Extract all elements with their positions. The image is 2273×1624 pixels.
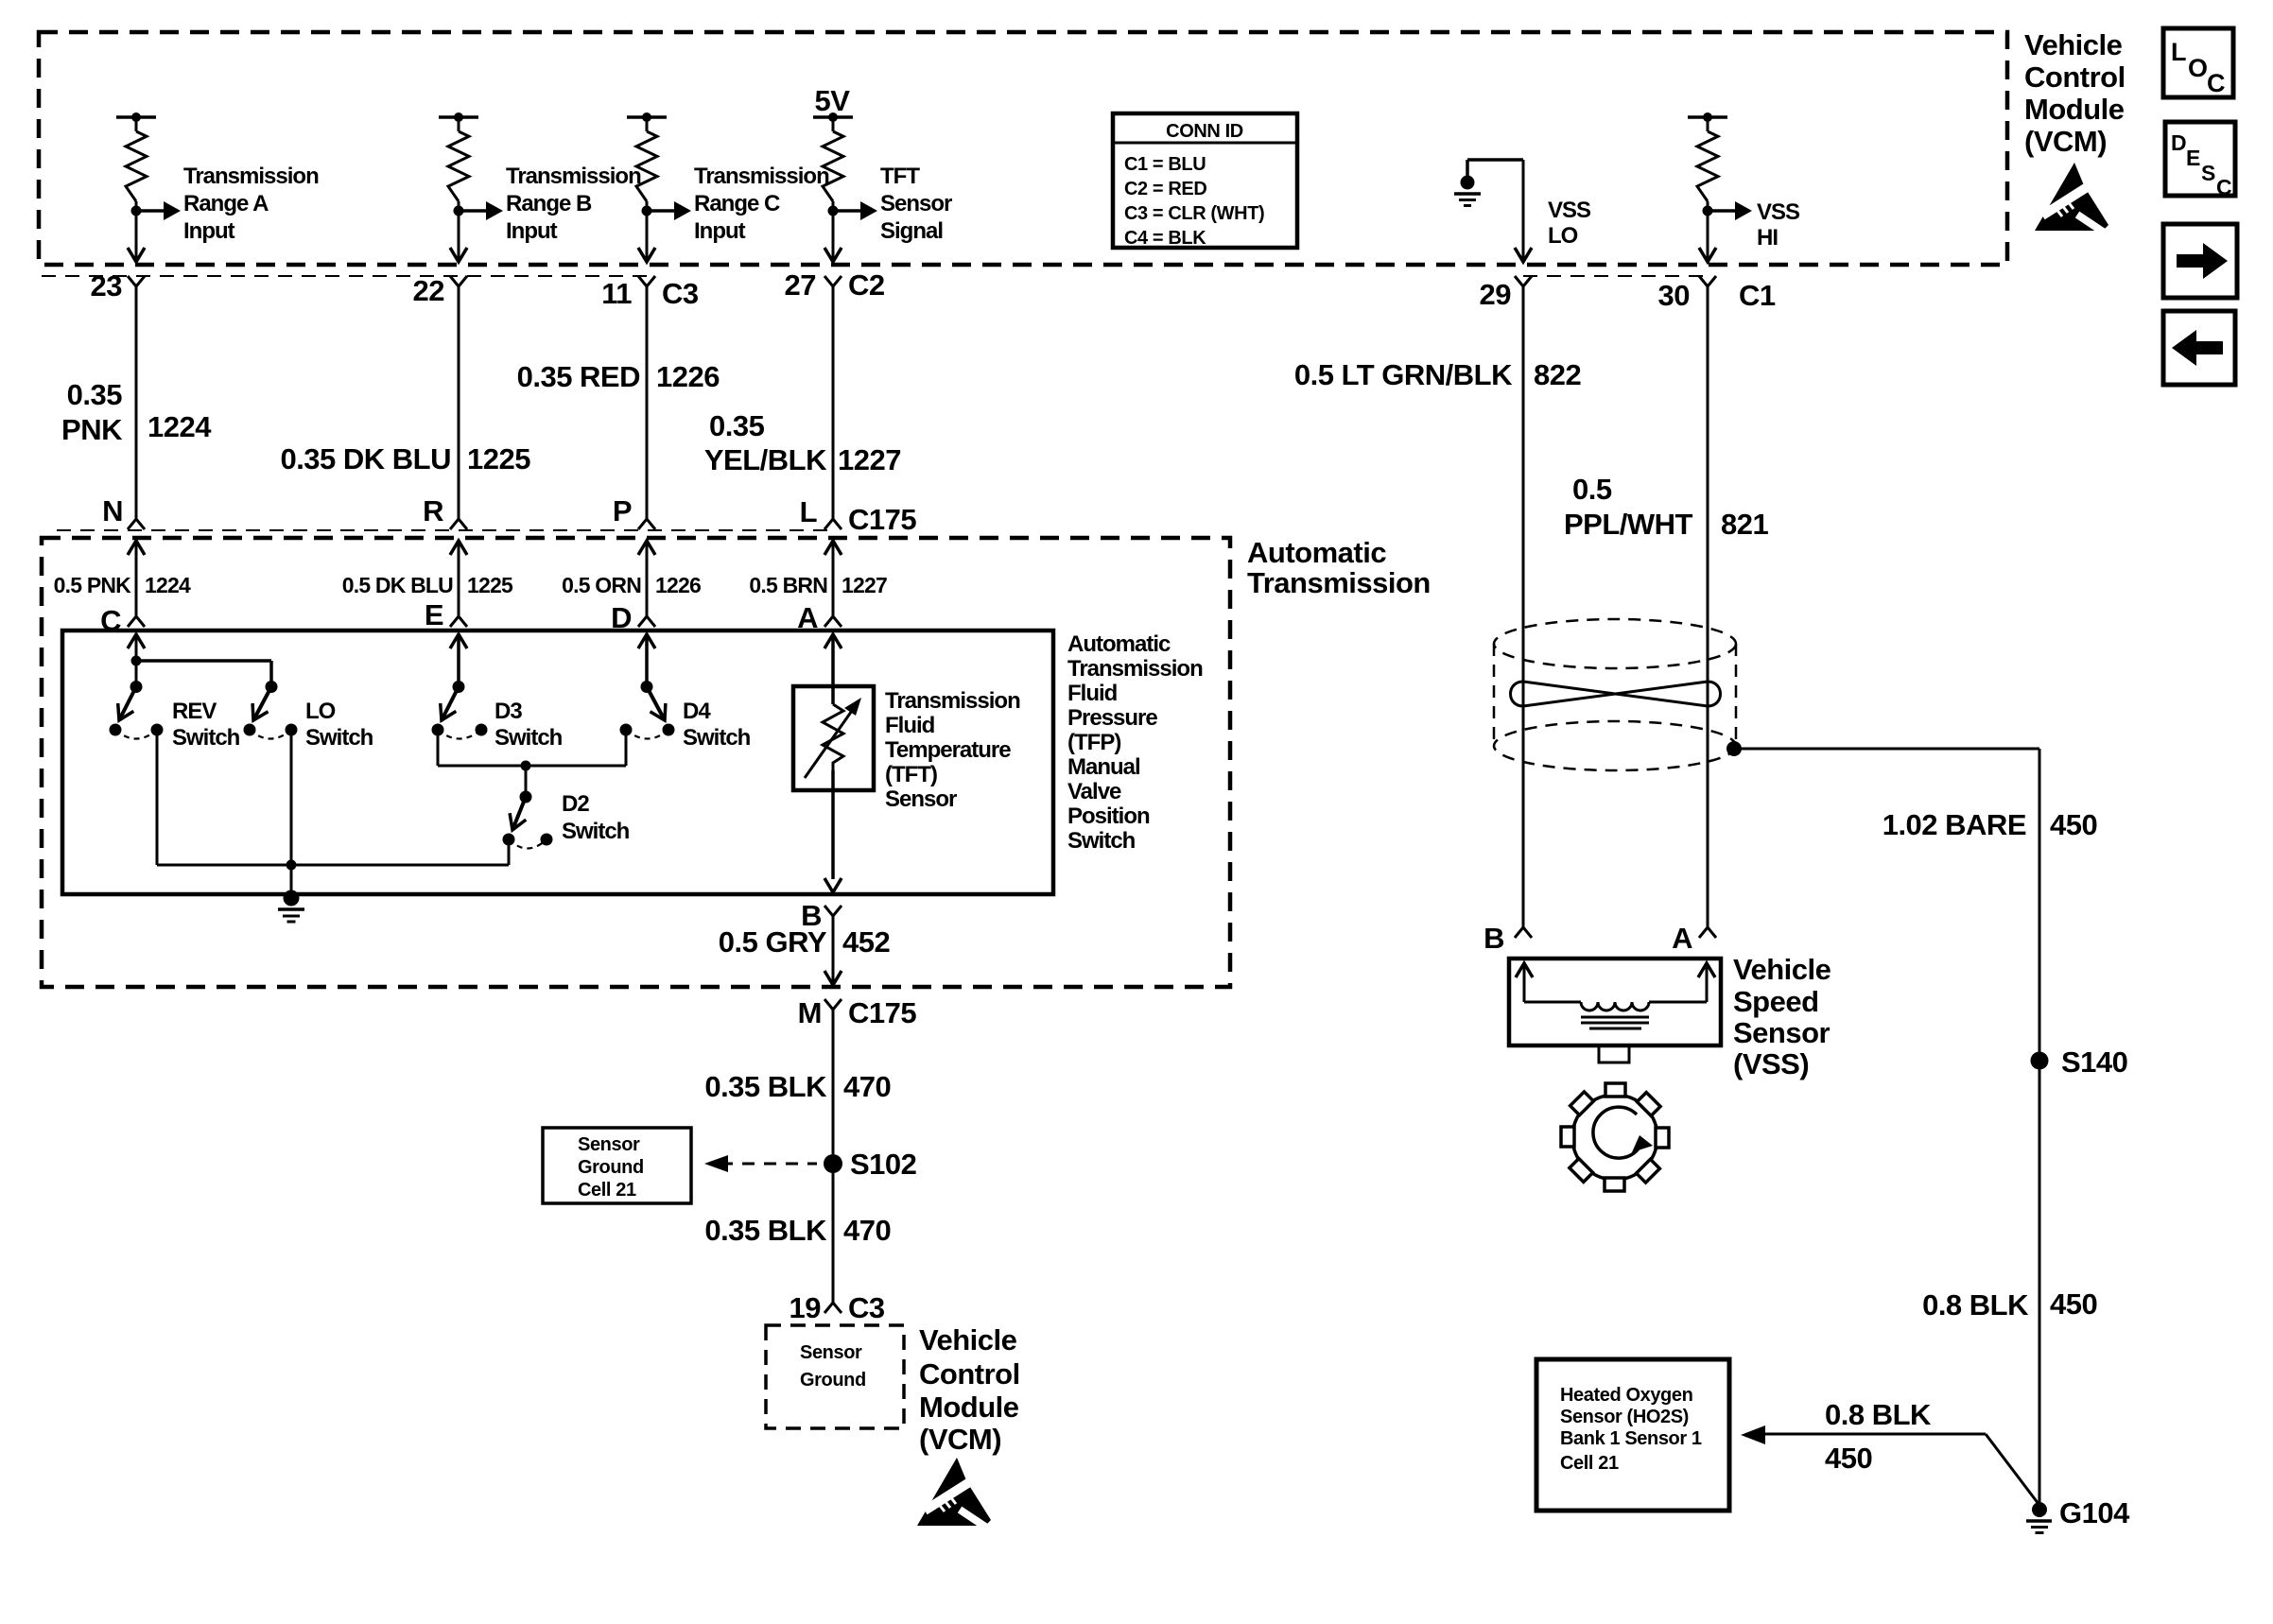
wire circuit 1224 harness segment bbox=[135, 286, 138, 519]
svg-text:Module: Module bbox=[919, 1391, 1019, 1424]
svg-text:450: 450 bbox=[2050, 1287, 2097, 1321]
svg-text:0.8 BLK: 0.8 BLK bbox=[1825, 1398, 1932, 1431]
wire circuit 470 lower bbox=[832, 1173, 835, 1303]
splice S102 bbox=[824, 1154, 842, 1173]
svg-text:Input: Input bbox=[506, 218, 558, 244]
svg-text:Sensor: Sensor bbox=[885, 786, 957, 812]
svg-text:VSS: VSS bbox=[1757, 199, 1800, 225]
svg-text:0.35 BLK: 0.35 BLK bbox=[704, 1070, 827, 1103]
VCM internal ground for VSS LO bbox=[1467, 158, 1523, 162]
connector dashed line C3 section bbox=[42, 275, 647, 277]
svg-text:0.5 GRY: 0.5 GRY bbox=[719, 925, 827, 959]
wire circuit 1226 harness segment bbox=[646, 286, 649, 519]
svg-text:Switch: Switch bbox=[1067, 828, 1136, 854]
svg-text:(TFT): (TFT) bbox=[885, 762, 937, 787]
wire circuit 822 harness segment bbox=[1522, 286, 1525, 927]
D4 switch bbox=[647, 687, 665, 721]
svg-text:Fluid: Fluid bbox=[885, 713, 935, 738]
Sensor Ground Cell 21 reference box bbox=[543, 1128, 691, 1203]
svg-text:(VCM): (VCM) bbox=[2024, 125, 2107, 158]
svg-text:1.02 BARE: 1.02 BARE bbox=[1883, 808, 2026, 841]
svg-text:1224: 1224 bbox=[145, 573, 191, 597]
svg-text:Vehicle: Vehicle bbox=[2024, 28, 2123, 61]
svg-text:REV: REV bbox=[172, 699, 217, 724]
svg-text:1226: 1226 bbox=[655, 573, 701, 597]
wire circuit 1225 inside transmission bbox=[450, 541, 467, 555]
svg-text:Control: Control bbox=[919, 1357, 1020, 1391]
twisted pair shield sides bbox=[1493, 644, 1496, 746]
Heated Oxygen Sensor reference box bbox=[1536, 1359, 1729, 1511]
connector C175 cavity N bbox=[128, 519, 145, 529]
svg-text:C2 = RED: C2 = RED bbox=[1124, 179, 1206, 199]
svg-text:Switch: Switch bbox=[305, 725, 373, 751]
svg-text:C3: C3 bbox=[848, 1291, 885, 1324]
wire LO contact to case ground bbox=[290, 730, 293, 894]
svg-text:(TFP): (TFP) bbox=[1067, 730, 1120, 755]
D2 switch bbox=[512, 797, 526, 830]
svg-text:0.5 BRN: 0.5 BRN bbox=[749, 573, 827, 597]
reluctor wheel (VSS trigger) bbox=[1572, 1095, 1657, 1180]
TFT sensor box bbox=[793, 686, 874, 790]
svg-text:Signal: Signal bbox=[880, 218, 943, 244]
svg-text:S140: S140 bbox=[2061, 1045, 2127, 1079]
svg-text:N: N bbox=[102, 494, 123, 527]
wire circuit 1226 inside transmission bbox=[638, 541, 655, 555]
svg-text:Transmission: Transmission bbox=[506, 164, 641, 189]
svg-text:D4: D4 bbox=[683, 699, 711, 724]
svg-text:0.5: 0.5 bbox=[1572, 473, 1612, 506]
svg-text:470: 470 bbox=[843, 1070, 891, 1103]
twisted pair shield ellipse bottom bbox=[1494, 721, 1736, 770]
svg-text:Transmission: Transmission bbox=[183, 164, 319, 189]
svg-text:0.8 BLK: 0.8 BLK bbox=[1922, 1288, 2029, 1322]
svg-text:C1 = BLU: C1 = BLU bbox=[1124, 154, 1206, 175]
Vehicle Control Module (VCM) dashed enclosure bbox=[39, 32, 2007, 265]
svg-text:C175: C175 bbox=[848, 996, 916, 1029]
svg-text:LO: LO bbox=[1548, 223, 1578, 249]
svg-text:LO: LO bbox=[305, 699, 336, 724]
svg-text:D3: D3 bbox=[495, 699, 522, 724]
svg-text:PNK: PNK bbox=[61, 413, 123, 446]
ESD sensitivity symbol (bottom VCM) bbox=[917, 1458, 994, 1532]
resistor pull-up, VSS HI input (VCM) bbox=[1688, 115, 1727, 119]
REV switch bbox=[119, 687, 136, 721]
svg-text:Fluid: Fluid bbox=[1067, 681, 1118, 706]
svg-text:R: R bbox=[423, 494, 443, 527]
svg-text:Valve: Valve bbox=[1067, 779, 1121, 804]
Sensor Ground dashed box (VCM) bbox=[766, 1325, 904, 1428]
svg-text:Cell 21: Cell 21 bbox=[578, 1180, 636, 1201]
svg-text:Range A: Range A bbox=[183, 191, 269, 216]
svg-text:B: B bbox=[1484, 922, 1504, 955]
svg-text:Bank 1 Sensor 1: Bank 1 Sensor 1 bbox=[1560, 1428, 1702, 1449]
svg-text:Transmission: Transmission bbox=[1247, 566, 1431, 599]
svg-text:L: L bbox=[2171, 38, 2187, 66]
svg-text:Range C: Range C bbox=[694, 191, 780, 216]
svg-text:Heated Oxygen: Heated Oxygen bbox=[1560, 1385, 1692, 1406]
svg-text:YEL/BLK: YEL/BLK bbox=[704, 443, 827, 476]
svg-text:22: 22 bbox=[413, 274, 444, 307]
svg-text:Pressure: Pressure bbox=[1067, 705, 1157, 731]
svg-text:30: 30 bbox=[1658, 279, 1690, 312]
svg-text:0.35 BLK: 0.35 BLK bbox=[704, 1214, 827, 1247]
wire REV contact to ground bus bbox=[156, 730, 159, 865]
svg-text:19: 19 bbox=[789, 1291, 822, 1324]
svg-text:G104: G104 bbox=[2059, 1496, 2130, 1529]
svg-text:VSS: VSS bbox=[1548, 198, 1591, 223]
connector C175 cavity R bbox=[450, 519, 467, 529]
svg-text:Automatic: Automatic bbox=[1067, 631, 1171, 657]
back arrow legend icon bbox=[2163, 311, 2235, 385]
svg-text:L: L bbox=[800, 495, 817, 528]
ESD sensitivity symbol (top, VCM) bbox=[2035, 163, 2111, 237]
LO switch bbox=[253, 687, 271, 721]
connector C175 cavity M bbox=[824, 999, 842, 1010]
svg-text:450: 450 bbox=[1825, 1442, 1872, 1475]
svg-text:Speed: Speed bbox=[1733, 985, 1819, 1018]
wire HO2S ground 0.8 BLK 450 bbox=[1741, 1425, 1765, 1444]
wire circuit 821 harness segment bbox=[1707, 286, 1709, 927]
wire D2 contact to ground bus bbox=[508, 839, 511, 865]
twist symbol bbox=[1511, 682, 1721, 706]
svg-text:A: A bbox=[1672, 922, 1692, 955]
D3 switch bbox=[442, 687, 459, 721]
svg-text:S: S bbox=[2201, 161, 2215, 185]
svg-text:(VSS): (VSS) bbox=[1733, 1047, 1809, 1080]
connector pin 11 bbox=[638, 276, 655, 286]
svg-text:Sensor: Sensor bbox=[1733, 1016, 1831, 1049]
wire C node to LO switch common bbox=[136, 659, 271, 663]
svg-text:O: O bbox=[2188, 54, 2208, 82]
svg-text:450: 450 bbox=[2050, 808, 2097, 841]
svg-text:Sensor: Sensor bbox=[800, 1342, 862, 1363]
Vehicle Speed Sensor box bbox=[1509, 959, 1721, 1045]
svg-text:Vehicle: Vehicle bbox=[1733, 953, 1831, 986]
svg-text:HI: HI bbox=[1757, 225, 1778, 251]
VSS mounting stub bbox=[1599, 1045, 1629, 1063]
svg-text:1225: 1225 bbox=[467, 573, 513, 597]
svg-text:Vehicle: Vehicle bbox=[919, 1323, 1017, 1356]
wire drain 1.02 BARE 450 bbox=[1734, 748, 2039, 751]
svg-text:1227: 1227 bbox=[842, 573, 887, 597]
svg-text:0.35 DK BLU: 0.35 DK BLU bbox=[280, 442, 451, 475]
svg-text:0.5 DK BLU: 0.5 DK BLU bbox=[342, 573, 453, 597]
svg-text:TFT: TFT bbox=[880, 164, 920, 189]
svg-text:C175: C175 bbox=[848, 503, 916, 536]
svg-text:1225: 1225 bbox=[467, 442, 530, 475]
svg-text:470: 470 bbox=[843, 1214, 891, 1247]
svg-text:CONN ID: CONN ID bbox=[1166, 121, 1243, 142]
TFP manual valve position switch box bbox=[62, 631, 1053, 894]
svg-text:1227: 1227 bbox=[838, 443, 901, 476]
twisted pair shield ellipse top bbox=[1494, 619, 1736, 668]
svg-text:Range B: Range B bbox=[506, 191, 592, 216]
svg-text:Transmission: Transmission bbox=[1067, 656, 1203, 682]
svg-text:29: 29 bbox=[1480, 278, 1512, 311]
VSS pickup coil bbox=[1516, 963, 1533, 977]
resistor pull-up, Transmission Range C input (VCM) bbox=[627, 115, 667, 119]
connector dashed line C1 section bbox=[1523, 275, 1708, 277]
drain wire junction bbox=[1726, 741, 1742, 756]
svg-text:11: 11 bbox=[601, 277, 632, 310]
wire circuit 1227 harness segment bbox=[832, 286, 835, 519]
svg-text:C3 = CLR (WHT): C3 = CLR (WHT) bbox=[1124, 203, 1264, 224]
connector pin 27 bbox=[824, 276, 842, 286]
wire terminal C to REV switch bbox=[128, 634, 145, 648]
connector C175 cavity L bbox=[824, 519, 842, 529]
connector cavity A (VSS) bbox=[1699, 927, 1716, 938]
svg-text:0.5 LT GRN/BLK: 0.5 LT GRN/BLK bbox=[1294, 358, 1513, 391]
svg-text:0.35: 0.35 bbox=[709, 409, 765, 442]
wire TFT sensor to terminal B bbox=[831, 770, 835, 790]
svg-text:Module: Module bbox=[2024, 93, 2125, 126]
connector C175 cavity P bbox=[638, 519, 655, 529]
svg-text:Transmission: Transmission bbox=[885, 688, 1020, 714]
svg-text:Switch: Switch bbox=[495, 725, 563, 751]
ground G104 bbox=[2032, 1502, 2047, 1517]
svg-text:0.35: 0.35 bbox=[67, 378, 123, 411]
svg-text:0.5 PNK: 0.5 PNK bbox=[54, 573, 132, 597]
wire circuit 1227 inside transmission bbox=[824, 541, 842, 555]
wire circuit 1224 inside transmission bbox=[128, 541, 145, 555]
Automatic Transmission dashed enclosure bbox=[42, 538, 1230, 987]
svg-text:23: 23 bbox=[91, 269, 123, 302]
svg-text:Control: Control bbox=[2024, 60, 2126, 94]
svg-text:821: 821 bbox=[1721, 508, 1768, 541]
connector pin 23 bbox=[128, 276, 145, 286]
wire terminal D to D4 switch bbox=[638, 634, 655, 648]
svg-text:C: C bbox=[2207, 69, 2226, 97]
svg-text:Input: Input bbox=[694, 218, 746, 244]
svg-text:0.5 ORN: 0.5 ORN bbox=[562, 573, 641, 597]
wire junction to D2 common bbox=[525, 766, 528, 797]
svg-text:E: E bbox=[2186, 146, 2200, 170]
svg-text:Automatic: Automatic bbox=[1247, 536, 1386, 569]
svg-text:S102: S102 bbox=[850, 1148, 916, 1181]
TFT thermistor element bbox=[823, 704, 843, 770]
svg-text:Switch: Switch bbox=[683, 725, 751, 751]
LOC legend icon bbox=[2163, 28, 2233, 97]
connector pin 22 bbox=[450, 276, 467, 286]
svg-text:1226: 1226 bbox=[656, 360, 720, 393]
svg-text:822: 822 bbox=[1534, 358, 1581, 391]
connector C175 dashed line bbox=[57, 529, 833, 531]
svg-text:C3: C3 bbox=[662, 277, 699, 310]
dashed reference arrow to Sensor Ground cell bbox=[720, 1163, 817, 1166]
svg-text:Cell 21: Cell 21 bbox=[1560, 1453, 1619, 1474]
svg-text:P: P bbox=[613, 494, 632, 527]
connector pin 29 bbox=[1515, 276, 1532, 286]
svg-text:C: C bbox=[2216, 175, 2232, 199]
wire circuit 1225 harness segment bbox=[458, 286, 460, 519]
connector pin 19 C3 bbox=[824, 1303, 842, 1313]
svg-text:Manual: Manual bbox=[1067, 754, 1140, 780]
svg-text:(VCM): (VCM) bbox=[919, 1423, 1001, 1456]
case ground symbol (TFP) bbox=[284, 890, 300, 907]
svg-text:C1: C1 bbox=[1739, 279, 1776, 312]
svg-text:5V: 5V bbox=[815, 84, 851, 117]
wire VSS LO inside VCM bbox=[1522, 160, 1525, 261]
connector cavity B (VSS) bbox=[1515, 927, 1532, 938]
connector pin 30 bbox=[1699, 276, 1716, 286]
wire terminal A to TFT sensor bbox=[824, 634, 842, 648]
svg-text:Position: Position bbox=[1067, 803, 1150, 829]
svg-text:D2: D2 bbox=[562, 791, 589, 817]
svg-text:Sensor: Sensor bbox=[578, 1134, 640, 1155]
svg-text:1224: 1224 bbox=[147, 410, 212, 443]
resistor pull-up, Transmission Range A input (VCM) bbox=[116, 115, 156, 119]
svg-text:27: 27 bbox=[785, 268, 816, 302]
svg-text:D: D bbox=[2171, 130, 2187, 155]
forward arrow legend icon bbox=[2163, 224, 2237, 298]
wire D3/D4 contacts junction bbox=[437, 730, 440, 766]
svg-text:Ground: Ground bbox=[578, 1157, 644, 1178]
wire circuit 470 upper bbox=[832, 1010, 835, 1154]
svg-text:C2: C2 bbox=[848, 268, 885, 302]
svg-text:452: 452 bbox=[842, 925, 890, 959]
splice S140 bbox=[2031, 1052, 2049, 1070]
resistor pull-up, Transmission Range B input (VCM) bbox=[439, 115, 478, 119]
svg-text:M: M bbox=[798, 996, 822, 1029]
svg-text:Switch: Switch bbox=[562, 819, 630, 844]
wire terminal E to D3 switch bbox=[450, 634, 467, 648]
svg-text:Input: Input bbox=[183, 218, 235, 244]
svg-text:PPL/WHT: PPL/WHT bbox=[1564, 508, 1693, 541]
svg-text:C4 = BLK: C4 = BLK bbox=[1124, 228, 1206, 249]
svg-text:E: E bbox=[425, 598, 443, 631]
svg-text:Sensor: Sensor bbox=[880, 191, 952, 216]
svg-text:Switch: Switch bbox=[172, 725, 240, 751]
svg-text:Temperature: Temperature bbox=[885, 737, 1011, 763]
CONN ID table box bbox=[1113, 113, 1297, 248]
wire 452 to AT boundary bbox=[832, 972, 835, 983]
svg-text:Sensor (HO2S): Sensor (HO2S) bbox=[1560, 1407, 1689, 1427]
svg-text:Transmission: Transmission bbox=[694, 164, 829, 189]
DESC legend icon bbox=[2165, 122, 2235, 196]
svg-text:Ground: Ground bbox=[800, 1370, 866, 1391]
svg-text:0.35 RED: 0.35 RED bbox=[517, 360, 641, 393]
